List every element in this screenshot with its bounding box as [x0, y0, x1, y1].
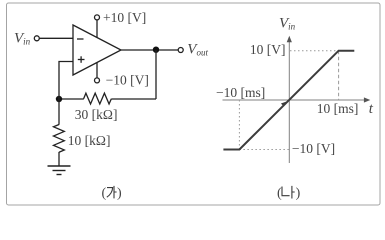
resistor R1 10 kOhm: [54, 125, 65, 153]
svg-text:−10 [ms]: −10 [ms]: [216, 85, 265, 100]
svg-text:(: (: [102, 186, 107, 201]
label (na) caption: [277, 186, 301, 201]
svg-text:): ): [296, 186, 301, 201]
svg-text:10 [V]: 10 [V]: [250, 42, 286, 57]
op-amp U1: [73, 25, 121, 75]
svg-text:10 [ms]: 10 [ms]: [317, 101, 359, 116]
wire Vin to op-amp inverting input: [39, 37, 73, 39]
svg-text:): ): [117, 186, 122, 201]
dotted helper at -10ms: [238, 100, 240, 150]
svg-text:10 [kΩ]: 10 [kΩ]: [68, 133, 111, 148]
+10V supply wire: [96, 20, 98, 38]
input waveform: [223, 51, 354, 150]
-10V supply wire: [96, 63, 98, 78]
label (ga) caption: [102, 186, 123, 201]
wire node to non-inverting input: [59, 62, 73, 100]
terminal Vout: [178, 48, 183, 53]
wire node down to resistor R1: [58, 99, 60, 125]
graph: V axis: [288, 41, 290, 164]
graph: t axis: [223, 99, 368, 101]
terminal Vin: [34, 36, 39, 41]
wire feedback left segment: [59, 98, 84, 100]
V axis arrowhead: [287, 36, 292, 42]
ground: [48, 166, 71, 175]
output wire: [121, 49, 178, 51]
arrow on waveform: [281, 102, 286, 107]
dashed helper at +10ms: [338, 51, 340, 100]
node A junction: [56, 96, 62, 102]
svg-text:30 [kΩ]: 30 [kΩ]: [75, 107, 118, 122]
svg-text:−10 [V]: −10 [V]: [106, 72, 149, 87]
wire output down to feedback: [155, 50, 157, 99]
resistor R2 30 kOhm: [84, 93, 112, 104]
+10V supply terminal: [95, 15, 100, 20]
junction node on output: [153, 47, 159, 53]
t axis arrowhead: [364, 97, 370, 102]
wire resistor to ground: [58, 152, 60, 166]
-10V supply terminal: [95, 78, 100, 83]
dotted helper +10V level: [290, 50, 339, 52]
dotted helper -10V level: [239, 149, 289, 151]
svg-text:(: (: [277, 186, 282, 201]
svg-text:+10 [V]: +10 [V]: [103, 10, 146, 25]
wire feedback right segment: [111, 98, 156, 100]
svg-text:−10 [V]: −10 [V]: [292, 141, 335, 156]
